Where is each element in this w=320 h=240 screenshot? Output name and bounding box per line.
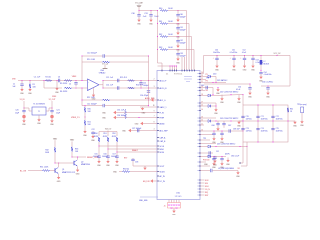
svg-text:VIN: VIN <box>12 78 16 80</box>
pin numbers right edge <box>201 72 203 132</box>
wire top pins right <box>182 57 185 70</box>
capacitor C51 0.1uF/16v <box>230 50 238 65</box>
power symbol VCC_BAT <box>135 1 143 10</box>
svg-text:xx xx: xx xx <box>186 81 190 83</box>
svg-text:SDO: SDO <box>205 186 209 188</box>
resistor R10 1.0M feedback <box>82 59 149 63</box>
net label VREF <box>72 76 77 78</box>
polarized terminal <box>22 115 25 118</box>
pin ADC_G <box>157 99 166 102</box>
net label VREF_2.5 <box>71 113 85 120</box>
svg-text:D20: D20 <box>213 74 216 76</box>
svg-text:(DNP): (DNP) <box>225 154 230 156</box>
pin GADC_1 <box>157 106 166 109</box>
ground <box>55 81 60 94</box>
resistor R43 10.0K <box>159 47 178 51</box>
pin numbers left upper <box>154 79 155 101</box>
svg-text:xx: xx <box>198 162 200 164</box>
junction <box>261 70 262 71</box>
capacitor C10 1500pF feedback <box>82 53 149 58</box>
wire net SM712 upper <box>200 88 243 97</box>
pin ADC0_N <box>157 87 167 90</box>
wire bus R52 <box>117 151 158 153</box>
svg-text:BLM18: BLM18 <box>264 63 269 65</box>
capacitor C73 1uF/50v row2 <box>241 128 252 132</box>
svg-text:R11 1.0M: R11 1.0M <box>87 97 95 99</box>
polarized terminal <box>50 115 53 118</box>
crystal Y1 32.768KHz <box>32 104 46 115</box>
pin numbers top <box>166 73 182 75</box>
svg-text:10uF/50v: 10uF/50v <box>261 118 268 120</box>
capacitor C91 <box>220 131 223 138</box>
svg-text:VDD_IO: VDD_IO <box>105 129 112 131</box>
wire feedback left <box>81 56 83 81</box>
junction <box>76 80 77 89</box>
capacitor C4 NP <box>69 82 78 87</box>
ground <box>106 160 111 167</box>
capacitor C55 0.1uF <box>236 86 252 92</box>
svg-text:FREF: FREF <box>160 117 165 119</box>
label GND <box>113 172 118 174</box>
svg-text:C12 .1uF: C12 .1uF <box>106 77 113 79</box>
wire feedback right lower <box>148 56 149 106</box>
ground <box>266 92 271 99</box>
pin ADC0_P <box>157 79 167 82</box>
svg-text:D23 CDSOT23 SM712: D23 CDSOT23 SM712 <box>220 118 238 120</box>
svg-text:xx: xx <box>198 153 200 155</box>
net label EN <box>143 179 158 183</box>
svg-text:R10 1.0M: R10 1.0M <box>87 59 95 61</box>
ground <box>214 108 219 115</box>
svg-text:ADC0_P: ADC0_P <box>160 79 168 82</box>
capacitor C42 1000pF <box>176 37 186 45</box>
ground <box>176 45 181 52</box>
svg-text:GND_SNS: GND_SNS <box>139 200 148 202</box>
power label VBAT right <box>70 139 74 147</box>
capacitor C70 1uF/50v row1 <box>241 116 252 120</box>
junction <box>178 36 179 37</box>
svg-text:R43: R43 <box>159 47 162 49</box>
test point TP8 <box>206 77 209 79</box>
resistor R40 10.0K <box>159 8 178 12</box>
junction <box>178 49 179 50</box>
capacitor C11 1500pF feedback <box>82 103 149 107</box>
svg-text:R3 49.9K: R3 49.9K <box>60 83 68 85</box>
svg-text:OPA340: OPA340 <box>99 72 106 75</box>
pin CAP_B <box>157 140 166 143</box>
svg-text:C66: C66 <box>211 125 214 127</box>
svg-text:10uF/50v: 10uF/50v <box>276 118 283 120</box>
junction <box>157 10 158 11</box>
svg-text:xx: xx <box>198 134 200 136</box>
svg-text:GADC_1: GADC_1 <box>160 106 167 109</box>
svg-text:0.1uF: 0.1uF <box>242 52 246 54</box>
pin XOUT <box>157 166 165 168</box>
svg-text:FI_IN: FI_IN <box>160 112 165 114</box>
wire pin 166 <box>200 164 210 166</box>
wire crystal left <box>24 108 32 111</box>
svg-text:1000pF: 1000pF <box>102 156 109 158</box>
ground <box>28 88 33 95</box>
svg-text:R14 49.9: R14 49.9 <box>136 85 143 87</box>
svg-text:BL_ON: BL_ON <box>20 170 27 172</box>
junction <box>216 106 217 107</box>
net label READY <box>132 149 139 152</box>
svg-text:VREF: VREF <box>72 76 77 78</box>
wire AGND pin <box>135 121 157 125</box>
svg-text:R41: R41 <box>159 21 162 23</box>
junction <box>82 80 83 81</box>
wire pin 87.5 <box>200 87 213 89</box>
svg-text:2 1: 2 1 <box>166 73 168 75</box>
ferrite bead L2 BLM18 <box>260 55 269 72</box>
svg-text:12pF: 12pF <box>15 112 19 114</box>
wire label <box>139 197 158 202</box>
ground <box>97 160 102 167</box>
resistor R2 0 ohm <box>45 77 52 82</box>
svg-text:1000pF: 1000pF <box>143 85 149 87</box>
ground <box>220 137 225 144</box>
capacitor C31 <box>144 11 159 20</box>
svg-text:VDDIO: VDDIO <box>160 171 166 173</box>
svg-text:xx: xx <box>198 143 200 145</box>
svg-text:CAP_B: CAP_B <box>160 140 167 143</box>
svg-text:xx: xx <box>198 156 200 158</box>
ground <box>172 210 177 217</box>
junction <box>216 146 248 147</box>
label C81 0.1uF <box>231 155 239 157</box>
pin ADC_REF <box>157 129 168 132</box>
wire pin 140 <box>200 138 210 140</box>
svg-text:16: 16 <box>153 105 155 107</box>
capacitor C52 0.1uF <box>240 50 246 65</box>
net label VO <box>237 168 240 170</box>
junction <box>24 108 53 109</box>
wire mid rail <box>239 120 295 122</box>
capacitor C21 12pF <box>50 110 60 115</box>
power label VBAT left <box>53 137 57 147</box>
svg-text:xx: xx <box>198 186 200 188</box>
wire pin 162 <box>200 160 210 162</box>
svg-text:xx: xx <box>198 121 200 123</box>
wire pin 134.5 <box>200 134 213 136</box>
svg-text:C2 .1uF: C2 .1uF <box>34 77 41 79</box>
net label VREF small <box>52 96 56 98</box>
ground <box>20 88 25 95</box>
wire <box>200 130 243 132</box>
svg-text:MOSI: MOSI <box>160 152 165 154</box>
svg-text:C68 1uF: C68 1uF <box>233 129 240 131</box>
junction <box>216 121 232 122</box>
svg-text:+: + <box>240 58 241 60</box>
pin AGND <box>157 122 165 125</box>
wire crystal right <box>46 108 52 111</box>
svg-text:C3: C3 <box>58 77 60 79</box>
svg-text:xx: xx <box>198 76 200 78</box>
pin FI_IN <box>157 112 164 114</box>
svg-text:1000pF: 1000pF <box>111 156 118 158</box>
pin names right inside <box>198 73 200 197</box>
svg-text:ADC_G: ADC_G <box>160 99 167 102</box>
resistor R11 1.0M feedback <box>82 97 149 101</box>
capacitor C15 1000pF <box>139 81 148 89</box>
transistor Q2 MMBT3904 <box>74 157 90 170</box>
resistor R52 49.9K <box>112 132 118 157</box>
svg-text:Y1: Y1 <box>38 111 40 113</box>
svg-text:READY: READY <box>132 149 139 152</box>
svg-text:0.1uF: 0.1uF <box>236 89 240 91</box>
svg-text:R30 0Ω: R30 0Ω <box>123 169 130 171</box>
svg-text:X2_OUT: X2_OUT <box>49 99 57 101</box>
svg-text:PGOOD: PGOOD <box>203 160 210 162</box>
wire VCC rail top <box>139 10 158 12</box>
power symbol VCC_A <box>102 62 109 68</box>
capacitor C14 inline <box>118 86 119 89</box>
svg-text:C35 .1uF: C35 .1uF <box>117 110 124 112</box>
resistor R14 inline <box>128 87 135 89</box>
svg-text:1000pF: 1000pF <box>180 43 187 45</box>
capacitor C74 10uF/50v row2 <box>256 128 267 132</box>
ground <box>212 137 217 144</box>
wire ADC_REF <box>122 128 157 132</box>
svg-text:C80: C80 <box>207 156 210 158</box>
ground <box>57 176 62 183</box>
svg-text:C92: C92 <box>216 151 219 153</box>
wire pin 73.5 <box>200 73 204 75</box>
resistor R1 10K <box>29 81 36 89</box>
wire bus <box>157 37 159 50</box>
svg-text:+10uF/16v: +10uF/16v <box>264 74 272 76</box>
resistor R21 10K <box>84 120 91 130</box>
pin VDDIO <box>157 171 166 173</box>
test point TP2 <box>297 104 307 120</box>
wire GADC <box>140 105 157 107</box>
svg-text:R40: R40 <box>159 8 162 10</box>
ground <box>215 65 220 72</box>
svg-text:xx: xx <box>198 183 200 185</box>
wire loop <box>178 24 189 71</box>
svg-text:9 8 7 6 5 4: 9 8 7 6 5 4 <box>174 73 182 75</box>
pins SPI group <box>200 180 210 197</box>
svg-text:CAP_A: CAP_A <box>160 136 167 139</box>
svg-text:xx: xx <box>198 140 200 142</box>
ground <box>251 65 256 72</box>
wire grid out left <box>240 142 243 164</box>
capacitor C1 1uF <box>12 81 23 89</box>
resistor R4 49.9K <box>60 87 76 93</box>
ground arrow <box>141 107 144 110</box>
svg-text:C30: C30 <box>131 13 134 15</box>
ground <box>220 162 225 169</box>
svg-text:MMBT2222-XYZ: MMBT2222-XYZ <box>62 172 76 174</box>
capacitor C80 <box>207 156 216 160</box>
junction <box>213 82 217 83</box>
ground <box>237 95 242 104</box>
net label AGND_REF <box>145 97 154 102</box>
svg-text:C14 .1uF: C14 .1uF <box>106 85 113 87</box>
capacitor C68 <box>229 129 240 133</box>
ground <box>243 65 248 72</box>
pin names top inside <box>184 76 192 83</box>
junction <box>170 66 178 67</box>
ground <box>137 19 142 26</box>
svg-text:xx: xx <box>198 180 200 182</box>
wire ADC0_N <box>103 87 157 89</box>
svg-text:C11 1500pF: C11 1500pF <box>87 103 98 105</box>
wire connector ground <box>173 208 175 210</box>
op-amp U1A OPA340 <box>76 69 105 94</box>
svg-text:DC_IN: DC_IN <box>160 181 166 183</box>
wire vertical feed <box>242 95 244 105</box>
svg-text:C10 1500pF: C10 1500pF <box>87 53 98 55</box>
junction <box>178 10 179 11</box>
junction <box>72 157 73 158</box>
ground <box>92 94 97 101</box>
svg-text:xx: xx <box>198 103 200 105</box>
capacitor C58 <box>124 158 158 166</box>
diode D20 <box>200 74 216 78</box>
junction <box>243 105 289 143</box>
svg-text:14: 14 <box>201 109 203 111</box>
svg-text:C16 470pF: C16 470pF <box>140 95 148 97</box>
svg-text:10uF/50v: 10uF/50v <box>261 131 268 133</box>
ground <box>176 19 181 26</box>
resistor R20 10K <box>84 107 91 113</box>
resistor R42 10.0K <box>159 34 178 38</box>
ground <box>220 95 225 104</box>
svg-text:+: + <box>230 58 231 60</box>
junction <box>178 23 179 24</box>
svg-text:AGND: AGND <box>160 122 166 125</box>
svg-text:VCC_3V: VCC_3V <box>274 53 282 55</box>
svg-text:C31: C31 <box>144 13 147 15</box>
junction <box>157 49 158 50</box>
wire loop <box>178 37 192 71</box>
ground <box>259 76 264 83</box>
ground <box>226 158 231 166</box>
svg-text:VBAT: VBAT <box>70 139 74 142</box>
label D21 BAT54C <box>217 79 228 82</box>
net label BL_ON <box>20 170 27 172</box>
svg-text:xx: xx <box>198 146 200 148</box>
junction <box>103 80 104 89</box>
ground <box>216 87 221 95</box>
capacitor C56 0.1uF/16v <box>262 81 273 92</box>
ground <box>176 58 181 65</box>
svg-text:VREF_2.5: VREF_2.5 <box>71 117 80 119</box>
capacitor C50 10uF/16v <box>213 50 220 65</box>
svg-text:xx: xx <box>198 73 200 75</box>
wire pin 82.5 net <box>200 77 226 83</box>
wire lower caps <box>204 84 250 88</box>
svg-text:D25 CDSOT23 SM712: D25 CDSOT23 SM712 <box>217 144 235 146</box>
svg-text:EN_1V8: EN_1V8 <box>143 181 150 183</box>
power label VDD_IO <box>99 129 117 132</box>
wire Q1 emitter to ground <box>58 174 60 177</box>
capacitor C92 <box>209 151 219 155</box>
wire cap-grid frame <box>243 105 288 142</box>
svg-text:10.0K: 10.0K <box>168 34 173 36</box>
wire opamp output <box>99 81 103 89</box>
wire pin 170.5 inductor <box>200 169 238 172</box>
junction <box>141 80 150 89</box>
wire FREF <box>102 115 157 120</box>
svg-text:VCC_A: VCC_A <box>102 62 109 65</box>
resistor R61 1K <box>287 108 293 113</box>
svg-text:C65: C65 <box>201 85 204 87</box>
capacitor C3 inline <box>58 77 60 83</box>
ground <box>149 19 154 26</box>
wire FI_IN <box>102 110 157 115</box>
capacitor C16 470pF <box>140 91 150 97</box>
transistor Q1 MMBT2222 <box>55 168 76 174</box>
resistor R22 vertical <box>125 109 127 119</box>
svg-text:AC_IN: AC_IN <box>160 175 166 178</box>
wire loop <box>178 50 194 71</box>
wire loop <box>178 11 187 71</box>
junction <box>157 23 158 24</box>
resistor R50 49.9K <box>94 132 100 157</box>
svg-text:ADC0_N: ADC0_N <box>160 87 168 90</box>
svg-text:J1: J1 <box>164 206 166 208</box>
resistor R31 1.00K <box>40 167 55 172</box>
svg-text:L3 (DNP-0Ω) FB800: L3 (DNP-0Ω) FB800 <box>218 168 234 170</box>
junction <box>55 163 56 164</box>
wire bus to U10 <box>158 50 163 71</box>
svg-text:xx: xx <box>198 166 200 168</box>
capacitor C90 <box>212 131 215 138</box>
svg-text:xx: xx <box>198 82 200 84</box>
wire pin 143.5 <box>200 143 216 145</box>
svg-text:10uF/16v: 10uF/16v <box>213 52 220 54</box>
ground <box>176 32 181 39</box>
wire opamp input lower <box>44 81 62 89</box>
svg-text:C37 1000pF: C37 1000pF <box>132 128 141 130</box>
pin MISO <box>157 149 165 151</box>
svg-text:C21: C21 <box>56 110 59 112</box>
ground <box>50 118 55 126</box>
svg-text:1000pF: 1000pF <box>180 56 187 58</box>
capacitor C43 1000pF <box>176 50 186 58</box>
net label X2 <box>49 99 57 108</box>
svg-text:R42: R42 <box>159 34 162 36</box>
IC U10 refdes <box>175 193 182 199</box>
svg-text:R31 1.00K: R31 1.00K <box>40 167 49 169</box>
junction <box>108 149 109 150</box>
svg-text:10.0K: 10.0K <box>168 21 173 23</box>
junction <box>151 10 152 11</box>
ground <box>300 120 305 127</box>
svg-text:1000pF: 1000pF <box>180 17 187 19</box>
ground <box>213 160 218 167</box>
ground <box>115 160 120 167</box>
wire ADC_G <box>148 100 157 101</box>
connector J1 programming header <box>164 200 181 209</box>
svg-text:ADC_REF: ADC_REF <box>160 129 168 132</box>
label D25 CDSOT23-SM712 <box>217 144 235 146</box>
wire net SM712 third <box>200 145 247 148</box>
svg-text:C22: C22 <box>91 129 94 131</box>
wire net base Q2 <box>55 162 74 164</box>
capacitor C22 <box>91 129 96 142</box>
svg-text:xx: xx <box>198 106 200 108</box>
pin CAP_A <box>157 136 166 139</box>
capacitor C53 0.1uF/16v <box>251 55 263 65</box>
wire Q1 collector <box>58 163 60 167</box>
svg-text:D21 BAT54C: D21 BAT54C <box>217 79 228 82</box>
pin DC_IN <box>157 181 165 183</box>
junction <box>99 146 100 147</box>
